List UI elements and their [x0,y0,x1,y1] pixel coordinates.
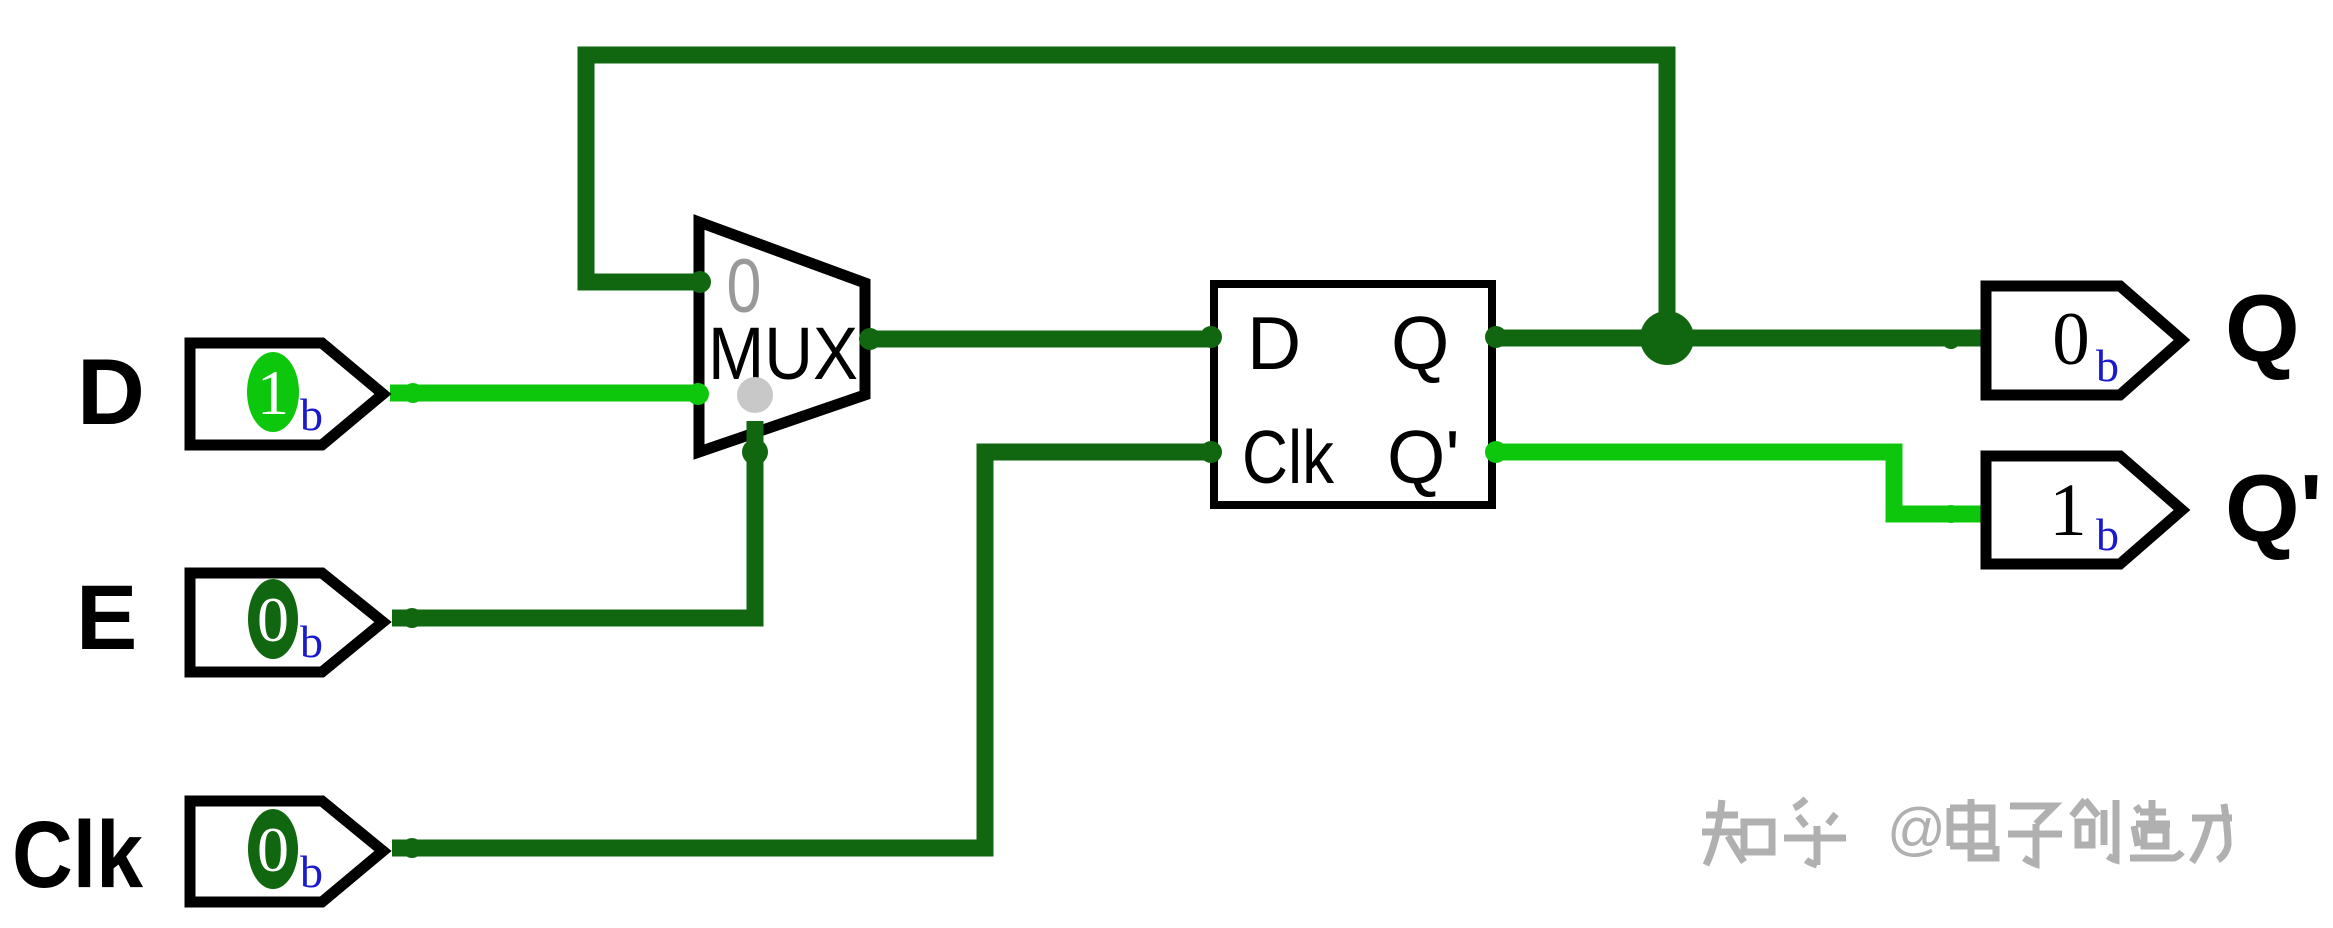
svg-text:1: 1 [257,357,289,428]
port dot MUX input 0 [689,271,711,293]
port dot flip-flop D [1200,326,1222,348]
node dot at E pin output [402,608,422,628]
svg-text:Q: Q [1391,301,1449,385]
wire MUX select stub [747,421,764,466]
junction node Q [1640,311,1694,365]
junction node MUX select [742,439,768,465]
svg-text:Q': Q' [2225,455,2323,562]
svg-text:b: b [300,846,323,897]
watermark Zhihu @dianzichuangzaoli [1702,797,2236,869]
wire D pin to MUX input 1 [390,385,700,402]
svg-text:b: b [300,389,323,440]
input pin E [190,573,383,672]
port dot flip-flop Q' [1485,441,1507,463]
output pin Q' [1986,456,2182,564]
svg-text:b: b [2096,509,2119,560]
wire flip-flop Q' to Q' pin [1496,452,1986,514]
port dot flip-flop Clk [1200,441,1222,463]
node dot at Q pin input [1942,331,1960,349]
svg-text:b: b [300,616,323,667]
svg-text:E: E [76,567,137,669]
svg-text:b: b [2096,340,2119,391]
svg-text:1: 1 [2049,469,2087,552]
svg-text:Clk: Clk [1242,415,1334,499]
svg-text:Clk: Clk [12,802,143,908]
wire feedback Q to MUX input 0 [586,55,1667,338]
svg-text:@: @ [1887,797,1946,862]
node dot at Q' pin input [1942,505,1960,523]
wire Q output row [1496,330,1986,347]
svg-text:Q': Q' [1387,415,1460,499]
svg-text:0: 0 [2052,298,2090,381]
svg-text:0: 0 [257,814,289,885]
svg-text:D: D [1247,301,1301,385]
node dot at Clk pin output [402,838,422,858]
port dot flip-flop Q [1485,326,1507,348]
input pin Clk [190,801,383,902]
node dot at D pin output [403,383,423,403]
wire Clk pin to flip-flop Clk [392,452,1212,848]
input pin D [190,343,383,445]
wire E pin to MUX select [392,421,755,618]
svg-text:D: D [77,339,145,444]
svg-text:MUX: MUX [708,312,858,395]
output pin Q [1986,286,2182,395]
flip-flop U2 [1214,284,1492,505]
svg-text:Q: Q [2225,275,2300,382]
mux U1 [699,222,865,452]
svg-text:0: 0 [257,584,289,655]
wire MUX output to D input of flip-flop [870,331,1212,348]
port dot MUX input 1 [687,383,709,405]
port dot MUX output [859,328,881,350]
